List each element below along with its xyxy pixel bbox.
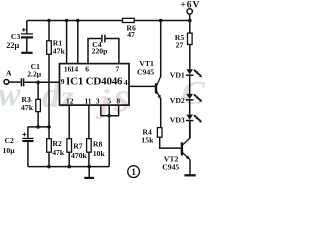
svg-text:C945: C945	[137, 67, 154, 76]
svg-text:15k: 15k	[141, 135, 154, 144]
svg-text:5: 5	[107, 96, 111, 105]
svg-text:+6V: +6V	[180, 1, 200, 11]
svg-text:47: 47	[127, 30, 135, 39]
svg-text:C3: C3	[11, 32, 21, 41]
svg-text:R2: R2	[52, 139, 62, 148]
svg-text:7: 7	[116, 65, 120, 74]
svg-text:220p: 220p	[92, 46, 108, 55]
svg-text:VD3: VD3	[170, 115, 185, 124]
svg-text:47k: 47k	[21, 103, 34, 112]
svg-text:6: 6	[85, 65, 89, 74]
svg-text:VD1: VD1	[170, 70, 185, 79]
svg-text:R8: R8	[93, 139, 103, 148]
svg-text:d: d	[42, 75, 61, 115]
svg-text:C2: C2	[5, 136, 15, 145]
svg-text:2.2μ: 2.2μ	[27, 70, 42, 79]
svg-text:10k: 10k	[93, 149, 106, 158]
svg-text:C945: C945	[162, 163, 179, 172]
svg-text:47k: 47k	[52, 148, 65, 157]
svg-text:14: 14	[71, 65, 79, 74]
svg-text:12: 12	[66, 96, 74, 105]
svg-text:A: A	[6, 68, 12, 77]
svg-text:4: 4	[124, 78, 128, 87]
svg-text:1: 1	[131, 168, 136, 178]
svg-text:IC1 CD4046: IC1 CD4046	[66, 76, 123, 88]
svg-text:11: 11	[84, 96, 91, 105]
svg-text:9: 9	[61, 77, 65, 86]
svg-text:10μ: 10μ	[3, 146, 16, 155]
svg-text:470k: 470k	[71, 151, 88, 160]
svg-text:47k: 47k	[53, 46, 66, 55]
svg-text:R7: R7	[73, 142, 83, 151]
svg-text:VD2: VD2	[170, 96, 185, 105]
svg-text:27: 27	[176, 40, 184, 49]
svg-text:8: 8	[116, 96, 120, 105]
svg-text:22μ: 22μ	[6, 41, 19, 50]
svg-text:3: 3	[96, 96, 100, 105]
svg-text:C: C	[182, 75, 205, 112]
